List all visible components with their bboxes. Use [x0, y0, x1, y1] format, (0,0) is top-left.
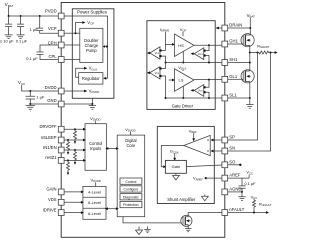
- wire VDS LS bottom input tap to SL1: [162, 76, 166, 98]
- pin nFAULT: [222, 210, 228, 216]
- wire AREF line with VCC tick: [228, 175, 249, 179]
- capacitor C6 (0.1uF AREF): [239, 178, 246, 192]
- node junction dot SL1 left tap: [165, 97, 167, 99]
- svg-text:≥ 10 µF: ≥ 10 µF: [0, 39, 14, 44]
- wire VCC to DVDD pin: [22, 85, 59, 91]
- wire PVDD node line: [9, 15, 59, 17]
- svg-text:DRVOFF: DRVOFF: [39, 124, 57, 129]
- wire block ground drop to GND line: [91, 98, 93, 104]
- transistor Q2 low-side MOSFET: [241, 70, 254, 83]
- value label RnFAULT: [259, 201, 272, 207]
- Q1 drain/source taps: [245, 28, 250, 53]
- wire GH1 to Q1 gate: [228, 43, 244, 45]
- wire SP input arrow: [213, 139, 222, 141]
- wire nFAULT output line with arrow: [228, 212, 267, 214]
- pin SH1: [222, 60, 228, 66]
- svg-text:HS: HS: [178, 43, 184, 48]
- svg-text:VREF: VREF: [189, 128, 197, 134]
- svg-text:AREF: AREF: [229, 173, 241, 178]
- svg-text:VGLS: VGLS: [89, 66, 98, 72]
- net label VDVDD (above level block): [91, 178, 101, 184]
- capacitor C5 (1uF DVDD): [26, 91, 36, 104]
- resistor pulldown nSLEEP: [67, 140, 70, 152]
- svg-text:VDS: VDS: [155, 51, 160, 55]
- node junction dot SN tap: [270, 52, 272, 54]
- node junction dots on PVDD line: [8, 15, 41, 17]
- node junction dot SH1 left tap: [165, 62, 167, 64]
- svg-text:DRAIN: DRAIN: [229, 23, 242, 28]
- wire amp output to gain box: [161, 146, 184, 167]
- pin AGND: [222, 189, 228, 195]
- node junction dot GND: [29, 103, 31, 105]
- pin IN1/EN: [58, 147, 64, 153]
- pin stub squares VDS LS inputs: [159, 67, 161, 77]
- ground (under C5): [26, 104, 35, 111]
- svg-text:LS: LS: [179, 78, 184, 83]
- comparator VGS HS (right triangle): [194, 48, 204, 60]
- ground (signal gnd triangle below core): [135, 227, 142, 235]
- pin IDRIVE: [58, 210, 64, 216]
- resistor RnFAULT pull-up: [253, 199, 256, 213]
- node junction dot shunt tap: [249, 52, 251, 54]
- node junction dot GL1 net: [208, 79, 210, 81]
- wire VGLS label arrow from regulator: [76, 68, 85, 77]
- block Configure: [120, 186, 142, 192]
- net label VDVDD: [89, 89, 100, 95]
- net label VGLS (LS supply): [178, 65, 186, 71]
- resistor RSHUNT: [250, 51, 275, 54]
- svg-text:6-Level: 6-Level: [88, 200, 101, 205]
- svg-text:SH1: SH1: [229, 57, 238, 62]
- svg-text:GND: GND: [47, 98, 56, 103]
- net label VAREF with bullet: [193, 176, 207, 182]
- svg-text:RSHUNT: RSHUNT: [257, 43, 270, 49]
- svg-text:VAREF: VAREF: [193, 176, 203, 182]
- wire SH1 pin line: [228, 62, 250, 64]
- svg-text:Regulator: Regulator: [82, 76, 100, 81]
- block Diagnostic: [120, 194, 142, 200]
- wire nHIZ1 input: [64, 159, 83, 161]
- drain connection to nFAULT line: [185, 213, 222, 217]
- block Shunt Amplifier: [157, 126, 214, 203]
- svg-text:CPH: CPH: [48, 41, 57, 46]
- node junction dot IN1/EN: [74, 149, 76, 151]
- wire VDS LS output arrow to block edge: [149, 72, 150, 74]
- wire VGLS drop to LS driver top: [182, 70, 184, 71]
- wire LS bottom to SL1 net: [182, 86, 184, 98]
- svg-text:VCP: VCP: [48, 26, 57, 31]
- wire GAIN input arrow: [64, 191, 81, 193]
- wire SO output with bullet: [228, 164, 240, 166]
- comparator VDS HS (left triangle): [150, 47, 160, 59]
- ground (triangle below gain box): [172, 173, 179, 180]
- value label 0.1uF: [26, 56, 38, 61]
- ground (AGND): [238, 192, 245, 201]
- title Power Supplies: [77, 9, 107, 14]
- wire VGS LS output arrow: [193, 89, 194, 91]
- wire SN sense line: [228, 53, 271, 152]
- wire GND pin internal line: [64, 103, 92, 105]
- wire VAREF to AREF pin: [206, 177, 222, 179]
- svg-text:Protection: Protection: [123, 203, 138, 207]
- svg-text:VCC: VCC: [246, 170, 253, 176]
- block Doubler Charge Pump: [80, 28, 103, 62]
- value label >=10uF: [0, 39, 14, 44]
- wire VCP pin to charge pump: [64, 32, 80, 34]
- pin stub squares VGS LS inputs: [203, 86, 205, 93]
- ground (below power supplies block): [89, 104, 96, 109]
- resistor pulldown IN1/EN: [74, 150, 77, 162]
- pin DVDD: [58, 88, 64, 94]
- Q2 drain/source taps: [245, 71, 249, 98]
- block Regulator: [79, 73, 103, 85]
- net label VCP: [87, 20, 94, 26]
- node junction dot DRVOFF: [74, 128, 76, 130]
- node junction dot nSLEEP: [67, 139, 69, 141]
- svg-text:Shunt Amplifier: Shunt Amplifier: [167, 197, 196, 202]
- node junction dot DVDD: [29, 90, 31, 92]
- wire PVDD rail arrow into regulator: [103, 77, 106, 80]
- op-amp shunt amplifier (points left): [184, 135, 210, 155]
- capacitor C2 (0.1uF): [17, 16, 24, 35]
- wire GL1 to Q2 gate: [228, 78, 244, 80]
- svg-text:VCP: VCP: [87, 20, 94, 26]
- svg-text:Gain: Gain: [172, 164, 180, 169]
- pin DRVOFF: [58, 126, 64, 132]
- block Gate Driver: [147, 21, 215, 110]
- pin CPL: [58, 57, 64, 63]
- node junction dot SL1 right tap: [208, 97, 210, 99]
- resistor pulldown nHIZ1: [67, 160, 70, 172]
- wire bidirectional control inputs to digital core: [108, 148, 116, 150]
- svg-text:Power Supplies: Power Supplies: [77, 9, 107, 14]
- svg-text:RnFAULT: RnFAULT: [259, 201, 272, 207]
- node VCC (AREF pull-up label): [246, 170, 253, 176]
- node junction dot AGND: [241, 191, 243, 193]
- wire DRAIN pin arrow into block: [217, 27, 222, 29]
- right pin name labels: [229, 23, 244, 213]
- wire DRVOFF input: [64, 128, 83, 130]
- wire VDS input arrow: [64, 201, 81, 203]
- node junction dot SL1 at LS bottom: [182, 97, 184, 99]
- pin GH1: [222, 41, 228, 47]
- svg-text:VDS: VDS: [48, 197, 57, 202]
- value label 0.1uF: [244, 181, 256, 186]
- tiny labels VDS/VGS in comparators: [155, 51, 204, 92]
- value label 1uF: [36, 95, 45, 100]
- node junction dot SH1: [249, 62, 251, 64]
- block level selectors: [83, 186, 106, 219]
- ground (under C1): [5, 35, 13, 39]
- pin PVDD: [58, 13, 64, 19]
- pin nSLEEP: [58, 137, 64, 143]
- svg-text:0.1 µF: 0.1 µF: [244, 181, 256, 186]
- value label 0.1uF: [16, 39, 28, 44]
- chip outline U1: [61, 3, 225, 238]
- wire IDRIVE drop and arrow into HS driver: [165, 32, 172, 51]
- svg-text:Core: Core: [126, 143, 136, 148]
- wire VREF arrow into amplifier: [193, 133, 195, 139]
- pin SO: [222, 162, 228, 168]
- svg-text:VBAT: VBAT: [5, 2, 14, 8]
- pin GAIN: [58, 189, 64, 195]
- wire VDS HS output arrow to block edge: [149, 52, 150, 54]
- net label VGLS: [89, 66, 98, 72]
- pin SL1: [222, 95, 228, 101]
- svg-text:6-Level: 6-Level: [88, 211, 101, 216]
- pin AREF: [222, 175, 228, 181]
- svg-text:GH1: GH1: [229, 39, 238, 44]
- node VCC (nFAULT pull-up label): [251, 194, 258, 200]
- wire IDRIVE input arrow: [64, 212, 81, 214]
- pin GND: [58, 101, 64, 107]
- node VBAT (top-left supply label): [5, 2, 14, 8]
- svg-text:4-Level: 4-Level: [88, 189, 101, 194]
- wire gain output to SO pin: [186, 165, 222, 167]
- svg-text:AGND: AGND: [229, 187, 241, 192]
- node junction dot SL1: [249, 97, 251, 99]
- wire VCP drop to HS driver top: [182, 32, 184, 36]
- pin CPH: [58, 42, 64, 48]
- wire CPL pin to charge pump: [64, 59, 80, 61]
- wire CPH pin to charge pump: [64, 44, 80, 46]
- value label RSHUNT: [257, 43, 270, 49]
- net label VDVDD (above digital core): [125, 127, 135, 133]
- wire VGS HS bottom input tap to SH1: [206, 56, 209, 63]
- wire nSLEEP input: [64, 139, 83, 141]
- ground (below low-side FET): [246, 98, 253, 108]
- wire VGS LS top input tap to GL1: [206, 80, 209, 88]
- node junction dot SH1 at HS bottom: [182, 62, 184, 64]
- block Control Inputs: [85, 124, 106, 171]
- node VBAT (top right supply label): [247, 13, 256, 19]
- resistor pulldown DRVOFF: [74, 129, 77, 141]
- transistor Q1 high-side MOSFET: [241, 34, 254, 47]
- capacitor C3 (1uF VCP-PVDD): [36, 16, 58, 33]
- wire VDVDD tick: [94, 121, 96, 124]
- comparator VGS LS (right triangle): [194, 85, 204, 97]
- wire SP sense line: [228, 53, 258, 141]
- gate bar: [182, 217, 184, 225]
- svg-text:SL1: SL1: [229, 93, 237, 98]
- Q2 body arrow: [246, 75, 249, 78]
- node junction dot drain: [249, 27, 251, 29]
- transistor nFAULT open drain: [181, 215, 192, 226]
- svg-text:SN: SN: [229, 146, 235, 151]
- block Control: [120, 178, 142, 184]
- wire VCP net label stub with arrow: [76, 23, 83, 34]
- channel bar: [184, 217, 186, 226]
- svg-text:VGS: VGS: [198, 52, 203, 56]
- wire HS output to GH1: [194, 44, 222, 46]
- title Shunt Amplifier: [167, 197, 196, 202]
- pin nHIZ1: [58, 158, 64, 164]
- svg-text:GL1: GL1: [229, 74, 238, 79]
- node junction dot nHIZ1: [67, 159, 69, 161]
- wire bidirectional arrow charge pump to PVDD rail: [104, 46, 106, 48]
- wire VGS HS top input tap to GH1: [206, 45, 209, 50]
- svg-text:PVDD: PVDD: [45, 9, 57, 14]
- svg-text:DVDD: DVDD: [45, 85, 57, 90]
- block Gain: [165, 160, 186, 173]
- block Protection: [120, 201, 142, 207]
- svg-text:VGS: VGS: [198, 89, 203, 93]
- svg-text:VGLS: VGLS: [178, 65, 186, 71]
- wire VDVDD tick: [129, 132, 131, 135]
- wire SL1 pin line: [228, 97, 250, 99]
- node junction dot GH1 net: [208, 44, 210, 46]
- wire GCSA arrow into gain box: [174, 153, 176, 158]
- svg-text:1 µF: 1 µF: [30, 27, 39, 32]
- block Digital Core: [117, 135, 145, 217]
- op-amp LS driver triangle: [175, 69, 195, 91]
- svg-text:IDRIVE: IDRIVE: [160, 27, 170, 33]
- wire VGS HS output arrow: [193, 53, 194, 55]
- svg-text:Control: Control: [125, 180, 136, 184]
- svg-text:VDS: VDS: [155, 71, 160, 75]
- wire VBAT drop: [8, 7, 10, 16]
- net label VREF: [189, 128, 197, 134]
- wire PVDD internal to rail: [64, 16, 108, 78]
- node junction dot nFAULT pull-up: [253, 212, 255, 214]
- svg-text:nHIZ1: nHIZ1: [45, 155, 57, 160]
- wire DRAIN pin to FET drain: [228, 27, 251, 29]
- capacitor C4 (0.1uF CPH-CPL flying): [37, 45, 59, 60]
- capacitor C1 (>=10uF bulk): [5, 16, 12, 35]
- svg-text:0.1 µF: 0.1 µF: [26, 56, 38, 61]
- wire GND pin line: [30, 103, 58, 105]
- node junction dot VCP: [75, 32, 77, 34]
- wire SL1 line inside block: [166, 97, 222, 99]
- wire VDVDD tick: [95, 182, 97, 186]
- wire LS output to GL1: [194, 79, 222, 81]
- op-amp HS driver triangle: [175, 34, 195, 57]
- body arrow: [186, 219, 189, 222]
- svg-text:Gate Driver: Gate Driver: [172, 103, 194, 108]
- wire VGS LS bottom input tap to SL1: [206, 92, 209, 98]
- comparator VDS LS (left triangle): [150, 67, 160, 79]
- pin stub squares VDS HS inputs: [159, 49, 161, 57]
- node junction dot SP tap: [257, 52, 259, 54]
- wire AGND line: [228, 191, 242, 193]
- value label 1uF: [30, 27, 39, 32]
- left pin name labels: [39, 9, 57, 213]
- svg-text:IN1/EN: IN1/EN: [43, 145, 57, 150]
- block Power Supplies: [72, 9, 114, 99]
- svg-text:Diagnostic: Diagnostic: [123, 195, 139, 199]
- wire phase node down to SH1: [249, 53, 251, 72]
- net label IDRIVE: [160, 27, 170, 33]
- net label VCP (HS supply): [180, 27, 187, 33]
- svg-text:1 µF: 1 µF: [36, 95, 45, 100]
- ground (under nFAULT MOSFET): [185, 229, 191, 232]
- wire IN1/EN input: [64, 149, 83, 151]
- svg-text:IDRIVE: IDRIVE: [43, 207, 57, 212]
- svg-text:Configure: Configure: [124, 188, 139, 192]
- pin stub squares VGS HS inputs: [203, 50, 205, 57]
- svg-text:CPL: CPL: [48, 54, 57, 59]
- svg-text:VDVDD: VDVDD: [89, 89, 100, 95]
- title Gate Driver: [172, 103, 194, 108]
- pin VDS: [58, 199, 64, 205]
- Q1 body arrow: [246, 39, 249, 42]
- pin DRAIN: [222, 25, 228, 31]
- svg-text:GAIN: GAIN: [46, 187, 56, 192]
- wire SH1 line inside block: [166, 62, 222, 64]
- wire VDS HS bottom input tap to SH1: [162, 56, 166, 62]
- svg-text:Pump: Pump: [86, 48, 97, 53]
- ground (triangle bottom right of block): [201, 195, 208, 201]
- node junction dot SH1 right tap: [208, 62, 210, 64]
- svg-text:Inputs: Inputs: [90, 146, 101, 151]
- svg-text:VBAT: VBAT: [247, 13, 256, 19]
- svg-text:0.1 µF: 0.1 µF: [16, 39, 28, 44]
- node junction dot GND internal: [91, 103, 93, 105]
- wire VDS LS top input tap to SH1: [162, 63, 166, 69]
- label input polarity marks: [207, 140, 209, 152]
- svg-text:GCSA: GCSA: [170, 149, 179, 155]
- pin GL1: [222, 76, 228, 82]
- ground (earth bars below core): [144, 227, 150, 233]
- source connection to ground: [185, 225, 188, 229]
- node VCC (DVDD supply label): [18, 80, 25, 86]
- wire digital core to nFAULT gate: [123, 217, 181, 223]
- wire HS bottom to SH1 net: [182, 51, 184, 62]
- wire VBAT drop to drain node: [249, 18, 251, 28]
- svg-text:SP: SP: [229, 135, 235, 140]
- ground (under C2): [17, 35, 25, 39]
- pin VCP: [58, 30, 64, 36]
- wire VDS HS top input tap to IDRIVE rail: [162, 50, 166, 52]
- svg-text:nFAULT: nFAULT: [229, 207, 244, 212]
- svg-text:SO: SO: [229, 159, 236, 164]
- wire DVDD pin to VDVDD label arrow: [64, 90, 84, 92]
- svg-text:nSLEEP: nSLEEP: [41, 135, 57, 140]
- pin SP: [222, 137, 228, 143]
- pin SN: [222, 148, 228, 154]
- net label VDVDD (above control inputs): [90, 116, 100, 122]
- wire LS input arrow: [169, 79, 173, 81]
- wire bidirectional levels to digital core: [108, 208, 117, 210]
- wire SN input arrow: [213, 150, 222, 152]
- net label GCSA: [170, 149, 179, 155]
